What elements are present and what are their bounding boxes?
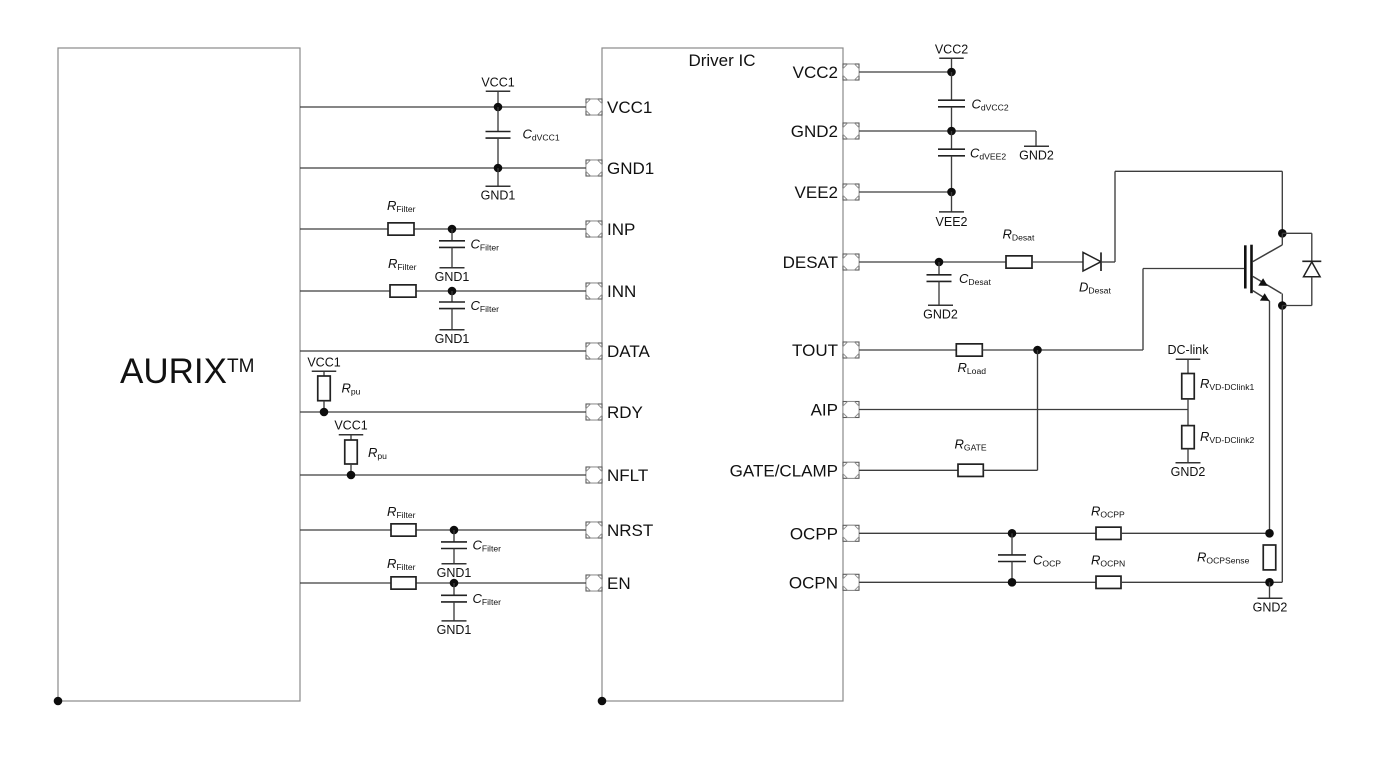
svg-text:GND1: GND1	[437, 623, 472, 637]
svg-text:VEE2: VEE2	[936, 215, 968, 229]
wire GND2 (pin to rail and branch)	[859, 131, 1036, 146]
node NRST filter junction	[450, 526, 459, 535]
capacitor CFilter (NRST)	[441, 530, 501, 564]
power DC-link	[1168, 343, 1210, 373]
node VCC2 junction	[947, 68, 956, 77]
svg-text:OCPP: OCPP	[790, 524, 838, 543]
svg-text:GND1: GND1	[435, 332, 470, 346]
ground GND1 (EN filter)	[437, 621, 472, 637]
wire EN (AURIX to pin)	[300, 582, 586, 584]
svg-text:GND1: GND1	[437, 566, 472, 580]
node DESAT/CDesat junction	[935, 258, 944, 267]
node Driver IC bottom-left junction	[598, 697, 607, 706]
svg-text:DESAT: DESAT	[783, 253, 838, 272]
transistor IGBT collector lead	[1253, 233, 1283, 261]
capacitor CdVCC1	[486, 107, 560, 168]
svg-text:VCC2: VCC2	[793, 63, 838, 82]
svg-text:GND1: GND1	[607, 159, 654, 178]
wire TOUT (pin to RLoad)	[859, 349, 956, 351]
svg-text:RFilter: RFilter	[387, 198, 416, 214]
svg-text:RDesat: RDesat	[1003, 227, 1035, 243]
svg-text:VCC1: VCC1	[481, 75, 514, 89]
wire emitter rail down	[1270, 306, 1283, 583]
wire INN (AURIX to pin)	[300, 290, 586, 292]
wire OCPN (pin to ROCPN)	[859, 581, 1096, 583]
node GND1/CdVCC1 junction	[494, 164, 503, 173]
svg-text:CdVCC1: CdVCC1	[523, 127, 560, 143]
wire ROCPN to sense	[1121, 581, 1270, 583]
svg-text:GND2: GND2	[791, 122, 838, 141]
node collector junction	[1278, 229, 1287, 238]
node VCC1/CdVCC1 junction	[494, 103, 503, 112]
AURIX microcontroller block	[58, 48, 300, 701]
svg-text:GND2: GND2	[923, 308, 958, 322]
pin EN (Driver IC left)	[586, 574, 631, 593]
pin INP (Driver IC left)	[586, 220, 635, 239]
resistor RFilter (NRST)	[387, 504, 416, 536]
power VCC1 (RDY pull-up)	[307, 355, 340, 376]
transistor IGBT gate bar	[1244, 245, 1247, 288]
capacitor CFilter (EN)	[441, 583, 501, 621]
svg-text:VCC1: VCC1	[307, 355, 340, 369]
svg-text:CFilter: CFilter	[473, 591, 502, 607]
capacitor CdVEE2	[938, 131, 1006, 192]
pin NRST (Driver IC left)	[586, 521, 653, 540]
resistor ROCPSense	[1197, 545, 1276, 570]
svg-text:ROCPN: ROCPN	[1091, 553, 1125, 569]
svg-text:Rpu: Rpu	[368, 445, 387, 461]
wire OCPP (pin to ROCPP)	[859, 532, 1096, 534]
svg-text:AIP: AIP	[811, 401, 838, 420]
pin GND2 (Driver IC right)	[791, 122, 859, 141]
svg-text:CFilter: CFilter	[471, 237, 500, 253]
node GND2 rail junction	[947, 127, 956, 136]
ground GND2 (sense)	[1253, 582, 1288, 614]
ground GND2 (CDesat)	[923, 305, 958, 321]
svg-text:COCP: COCP	[1033, 553, 1061, 569]
ground GND1 (NRST filter)	[437, 564, 472, 580]
transistor IGBT body bar	[1250, 245, 1253, 294]
node INP filter junction	[448, 225, 457, 234]
svg-text:CdVEE2: CdVEE2	[970, 146, 1006, 162]
svg-text:VCC1: VCC1	[607, 98, 652, 117]
resistor RDesat	[1003, 227, 1035, 269]
wire VCC2 (pin to rail)	[859, 71, 952, 73]
wire DATA (AURIX to pin)	[300, 350, 586, 352]
svg-text:CFilter: CFilter	[471, 298, 500, 314]
capacitor CDesat	[927, 262, 992, 305]
wire TOUT riser to IGBT gate	[1143, 269, 1244, 351]
pin DATA (Driver IC left)	[586, 342, 650, 361]
pin VCC2 (Driver IC right)	[793, 63, 859, 82]
wire RDY (AURIX to pin)	[300, 411, 586, 413]
svg-text:NRST: NRST	[607, 521, 653, 540]
svg-text:GND1: GND1	[481, 189, 516, 203]
ground GND1 (INP filter)	[435, 268, 470, 284]
pin OCPN (Driver IC right)	[789, 573, 859, 592]
wire kelvin-emitter rail down	[1269, 301, 1271, 533]
svg-text:DDesat: DDesat	[1079, 280, 1111, 296]
pin INN (Driver IC left)	[586, 282, 636, 301]
resistor RVD-DClink2	[1182, 410, 1255, 463]
node AURIX bottom-left junction	[54, 697, 63, 706]
pin DESAT (Driver IC right)	[783, 253, 859, 272]
wire RGATE to TOUT junction	[983, 350, 1037, 470]
node NFLT pull-up junction	[347, 471, 356, 480]
svg-text:RLoad: RLoad	[958, 360, 987, 376]
power VCC1 (top)	[481, 75, 514, 107]
capacitor CdVCC2	[938, 72, 1009, 131]
svg-text:GND2: GND2	[1019, 149, 1054, 163]
resistor RLoad	[956, 344, 986, 376]
resistor RFilter (INN)	[388, 256, 417, 297]
svg-text:CdVCC2: CdVCC2	[972, 97, 1009, 113]
pin GND1 (Driver IC left)	[586, 159, 654, 178]
resistor RFilter (EN)	[387, 556, 416, 589]
svg-text:VEE2: VEE2	[795, 183, 838, 202]
diode DDesat	[1079, 252, 1111, 295]
svg-text:NFLT: NFLT	[607, 466, 648, 485]
resistor RGATE	[955, 437, 987, 477]
svg-text:GND1: GND1	[435, 270, 470, 284]
wire INP (AURIX to pin)	[300, 228, 586, 230]
pin NFLT (Driver IC left)	[586, 466, 648, 485]
wire NRST (AURIX to pin)	[300, 529, 586, 531]
pin GATE/CLAMP (Driver IC right)	[730, 461, 859, 480]
node TOUT/gate junction	[1033, 346, 1042, 355]
wire ROCPP to sense	[1121, 532, 1270, 534]
svg-text:VCC1: VCC1	[334, 419, 367, 433]
node OCPN sense junction	[1265, 578, 1274, 587]
svg-text:ROCPP: ROCPP	[1091, 504, 1125, 520]
svg-text:VCC2: VCC2	[935, 42, 968, 56]
resistor RVD-DClink1	[1182, 374, 1255, 410]
svg-text:RVD-DClink1: RVD-DClink1	[1200, 376, 1254, 392]
node OCPP sense junction	[1265, 529, 1274, 538]
diode freewheeling (antiparallel)	[1282, 233, 1321, 305]
ground GND2 (divider)	[1171, 463, 1206, 479]
pin VCC1 (Driver IC left)	[586, 98, 652, 117]
svg-text:GND2: GND2	[1171, 465, 1206, 479]
resistor ROCPN	[1091, 553, 1125, 589]
transistor IGBT kelvin-emitter lead	[1253, 291, 1270, 301]
node INN filter junction	[448, 287, 457, 296]
pin OCPP (Driver IC right)	[790, 524, 859, 543]
svg-text:Rpu: Rpu	[342, 381, 361, 397]
svg-text:RFilter: RFilter	[387, 556, 416, 572]
transistor IGBT emitter lead	[1253, 276, 1283, 305]
wire RDesat to DDesat	[1032, 261, 1083, 263]
pin VEE2 (Driver IC right)	[795, 183, 859, 202]
svg-text:EN: EN	[607, 574, 631, 593]
svg-text:DC-link: DC-link	[1168, 343, 1210, 357]
wire GATE/CLAMP (pin to RGATE)	[859, 469, 958, 471]
resistor Rpu (NFLT)	[345, 440, 387, 475]
svg-text:CFilter: CFilter	[473, 538, 502, 554]
svg-text:RVD-DClink2: RVD-DClink2	[1200, 429, 1254, 445]
resistor Rpu (RDY)	[318, 376, 361, 412]
svg-text:RFilter: RFilter	[387, 504, 416, 520]
node OCPP/COCP junction	[1008, 529, 1017, 538]
wire DDesat to IGBT collector	[1101, 171, 1282, 262]
wire TOUT (RLoad to riser)	[982, 349, 1143, 351]
ground GND1 (INN filter)	[435, 330, 470, 346]
power VCC1 (NFLT pull-up)	[334, 419, 367, 440]
wire AIP (pin to divider)	[859, 409, 1188, 411]
ground GND1 (below CdVCC1)	[481, 168, 516, 203]
svg-text:ROCPSense: ROCPSense	[1197, 550, 1250, 566]
wire GND1 (AURIX to pin)	[300, 167, 586, 169]
wire DESAT (pin to RDesat)	[859, 261, 1006, 263]
node VEE2 junction	[947, 188, 956, 197]
power VCC2 (top)	[935, 42, 968, 72]
pin TOUT (Driver IC right)	[792, 341, 859, 360]
power VEE2 (bar below)	[936, 192, 968, 229]
svg-text:INP: INP	[607, 220, 635, 239]
resistor ROCPP	[1091, 504, 1125, 540]
node OCPN/COCP junction	[1008, 578, 1017, 587]
pin AIP (Driver IC right)	[811, 401, 859, 420]
svg-text:GATE/CLAMP: GATE/CLAMP	[730, 461, 838, 480]
svg-text:RFilter: RFilter	[388, 256, 417, 272]
svg-text:DATA: DATA	[607, 342, 650, 361]
svg-text:CDesat: CDesat	[959, 271, 991, 287]
capacitor CFilter (INN)	[439, 291, 499, 330]
ground GND2 (decoupling branch)	[1019, 146, 1054, 162]
svg-text:RDY: RDY	[607, 403, 643, 422]
wire NFLT (AURIX to pin)	[300, 474, 586, 476]
capacitor CFilter (INP)	[439, 229, 499, 268]
node RDY pull-up junction	[320, 408, 329, 417]
svg-text:GND2: GND2	[1253, 601, 1288, 615]
pin RDY (Driver IC left)	[586, 403, 643, 422]
node emitter junction	[1278, 301, 1287, 310]
svg-text:Driver IC: Driver IC	[688, 51, 755, 70]
capacitor COCP	[998, 533, 1061, 582]
node EN filter junction	[450, 579, 459, 588]
resistor RFilter (INP)	[387, 198, 416, 235]
wire VCC1 (AURIX to pin)	[300, 106, 586, 108]
svg-text:TOUT: TOUT	[792, 341, 838, 360]
wire VEE2 (pin to rail)	[859, 191, 952, 193]
svg-text:OCPN: OCPN	[789, 573, 838, 592]
Driver IC block	[602, 48, 843, 701]
svg-text:RGATE: RGATE	[955, 437, 987, 453]
svg-text:INN: INN	[607, 282, 636, 301]
